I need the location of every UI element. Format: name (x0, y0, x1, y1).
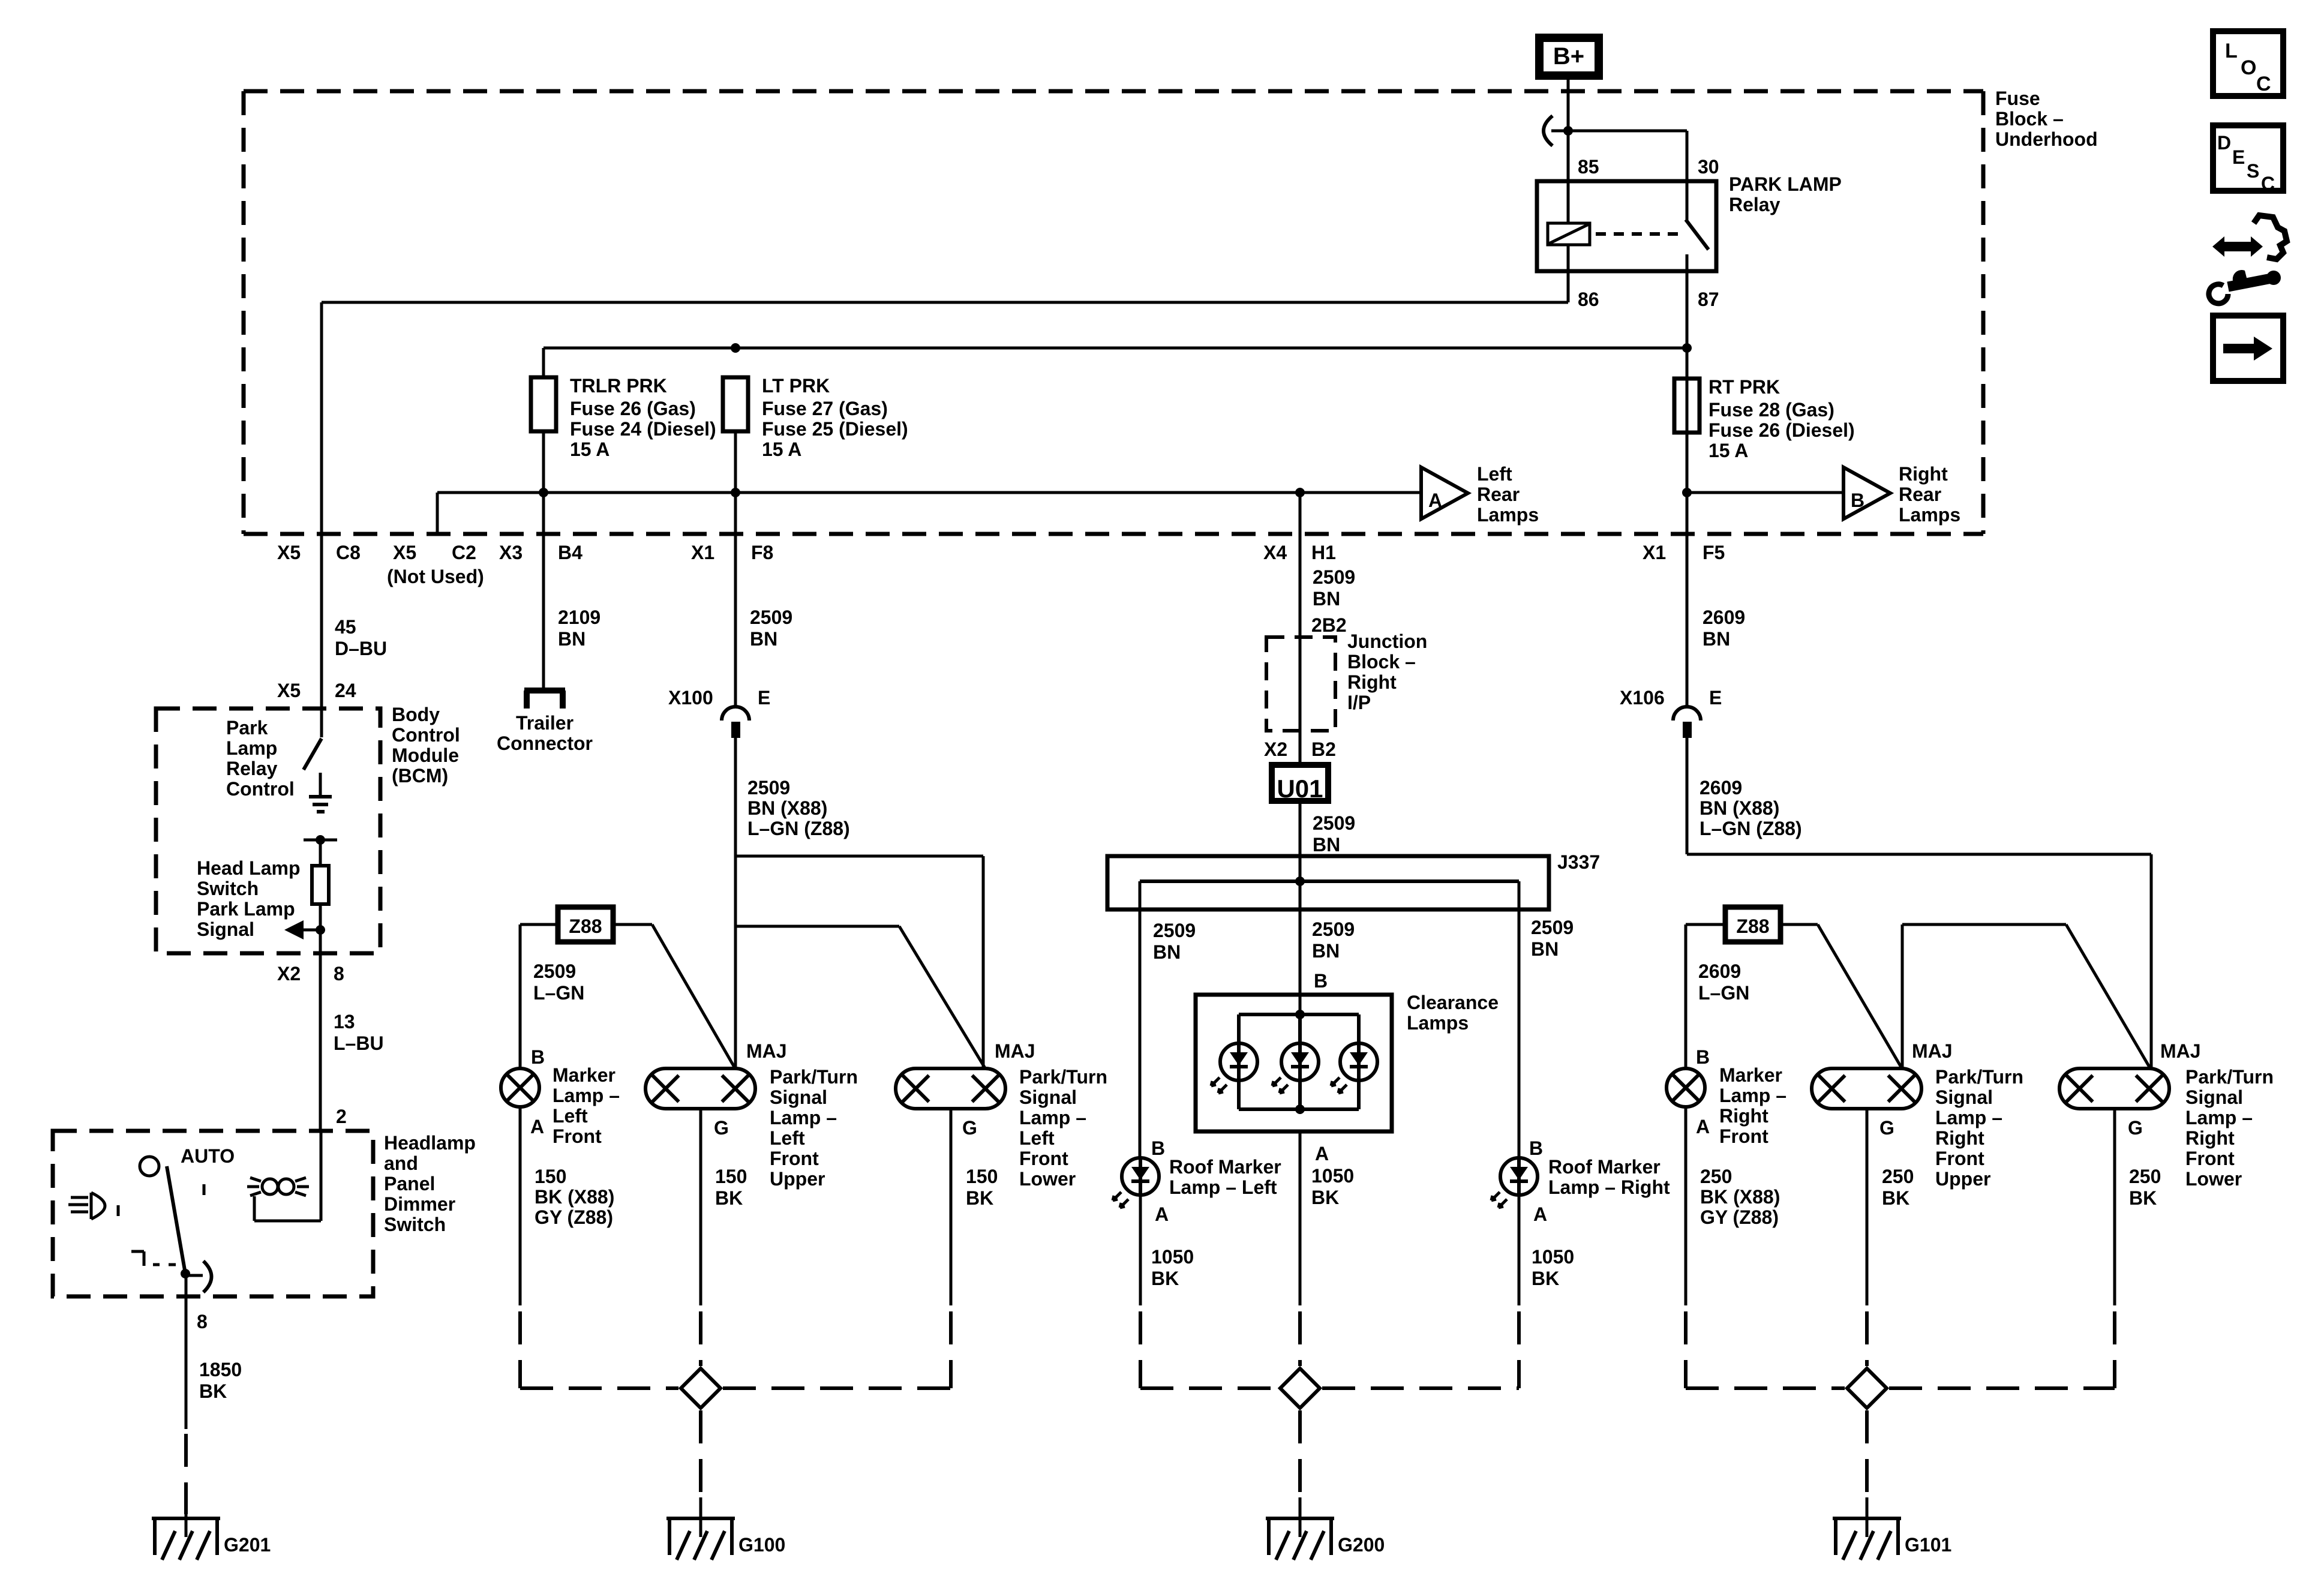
svg-text:Lamp – Left: Lamp – Left (1169, 1176, 1277, 1198)
svg-text:Block –: Block – (1347, 651, 1416, 673)
svg-text:G101: G101 (1905, 1534, 1951, 1556)
svg-text:BK: BK (1882, 1187, 1909, 1209)
svg-text:Relay: Relay (226, 758, 278, 779)
resistor: head lamp switch park lamp signal (319, 840, 322, 866)
svg-text:Signal: Signal (2185, 1086, 2243, 1108)
relay actuation dashed link (1596, 232, 1680, 236)
svg-text:8: 8 (197, 1311, 208, 1332)
svg-text:13: 13 (334, 1011, 355, 1032)
signal arrow (284, 920, 304, 939)
svg-text:Lower: Lower (2185, 1168, 2242, 1190)
dashed drop lower G right (2113, 1311, 2116, 1388)
dashed drop marker right (1684, 1311, 1688, 1388)
clearance LED 1 (1220, 1043, 1257, 1080)
svg-text:Roof Marker: Roof Marker (1548, 1156, 1661, 1178)
svg-text:O: O (2241, 56, 2256, 79)
svg-text:Left: Left (1019, 1127, 1055, 1149)
dashed drop upper G left (699, 1311, 702, 1366)
marker left output (519, 1107, 522, 1305)
icon box forward arrow (2213, 316, 2283, 381)
J337 left leg to roof marker left (1139, 881, 1142, 1158)
svg-text:Rear: Rear (1899, 484, 1941, 505)
node: B+ junction (1563, 126, 1573, 136)
switch blade (167, 1166, 185, 1274)
G200 dashed bus right (1322, 1386, 1519, 1390)
svg-text:A: A (1533, 1203, 1547, 1225)
svg-text:G: G (2128, 1117, 2143, 1139)
svg-text:L: L (2225, 40, 2238, 62)
svg-text:TRLR PRK: TRLR PRK (570, 375, 667, 397)
marker lamp left drop (519, 924, 522, 1068)
svg-text:Upper: Upper (1935, 1168, 1990, 1190)
svg-text:BK: BK (715, 1187, 743, 1209)
svg-text:BK: BK (1311, 1187, 1339, 1208)
svg-text:Marker: Marker (1719, 1064, 1782, 1086)
svg-text:BN (X88): BN (X88) (747, 797, 827, 819)
svg-text:Front: Front (770, 1148, 819, 1169)
svg-text:C8: C8 (336, 542, 361, 563)
svg-text:BK: BK (199, 1380, 227, 1402)
svg-text:BN: BN (558, 628, 585, 650)
svg-text:Z88: Z88 (569, 915, 602, 937)
off-page arrow A (1421, 467, 1468, 519)
node: head lamp switch top junction with tick (304, 839, 337, 842)
upper MAJ vertical (right) (1901, 924, 1904, 1069)
svg-text:Right: Right (1719, 1105, 1768, 1127)
svg-text:E: E (2232, 146, 2245, 168)
svg-text:15 A: 15 A (570, 439, 609, 460)
svg-text:Lamp –: Lamp – (2185, 1107, 2253, 1128)
wire F8 down (734, 534, 737, 707)
G200 dashed bus left (1140, 1386, 1278, 1390)
svg-text:S: S (2247, 160, 2259, 182)
headlamp and panel dimmer switch dashed box (53, 1131, 373, 1296)
svg-text:LT PRK: LT PRK (762, 375, 830, 397)
svg-text:Dimmer: Dimmer (384, 1193, 455, 1215)
node: TRLR bottom junction (539, 488, 548, 497)
node: blade output (181, 1269, 190, 1278)
svg-text:Right: Right (1899, 463, 1948, 485)
svg-text:B+: B+ (1553, 43, 1584, 70)
clearance output wire (1299, 1131, 1302, 1305)
svg-text:E: E (758, 687, 770, 709)
svg-text:(BCM): (BCM) (392, 765, 448, 786)
node: signal junction (316, 925, 325, 935)
branch to lower diagonal (right) (1902, 923, 2066, 926)
svg-text:Lamp –: Lamp – (770, 1107, 837, 1128)
svg-text:30: 30 (1698, 156, 1719, 178)
svg-text:L–BU: L–BU (334, 1032, 384, 1054)
off-page arrow B (1843, 467, 1890, 519)
svg-text:A: A (1428, 490, 1442, 511)
dashed drop roof marker left (1139, 1311, 1142, 1388)
svg-text:GY (Z88): GY (Z88) (1700, 1206, 1779, 1228)
svg-text:GY (Z88): GY (Z88) (535, 1206, 613, 1228)
splice diamond G100 (681, 1368, 720, 1408)
svg-text:E: E (1709, 687, 1722, 709)
BCM relay-control switch blade (304, 739, 322, 770)
fuse LT PRK (723, 377, 748, 431)
icon box LOC (2213, 31, 2283, 96)
svg-text:1850: 1850 (199, 1359, 242, 1380)
Z88 row wire (right) (1686, 923, 1725, 926)
svg-text:Right: Right (2185, 1127, 2235, 1149)
power feed B+ (1539, 38, 1599, 76)
wire through junction block (1299, 637, 1302, 731)
svg-text:D: D (2217, 132, 2231, 154)
svg-text:Right: Right (1935, 1127, 1984, 1149)
svg-text:Signal: Signal (197, 918, 254, 940)
svg-text:AUTO: AUTO (181, 1145, 235, 1167)
svg-text:G: G (1879, 1117, 1894, 1139)
svg-text:X2: X2 (1264, 739, 1287, 760)
svg-text:U01: U01 (1277, 775, 1323, 803)
svg-text:BN: BN (1703, 628, 1730, 650)
svg-text:Control: Control (226, 778, 295, 800)
dashed drop upper G right (1865, 1311, 1869, 1366)
fixed contact bracket (131, 1250, 144, 1253)
dashed wire diamond to G200 (1298, 1410, 1302, 1497)
J337 internal bus (1140, 879, 1519, 883)
svg-text:Block –: Block – (1995, 108, 2064, 130)
dashed drop roof marker right (1517, 1311, 1521, 1388)
svg-text:Switch: Switch (384, 1214, 446, 1235)
diagonal to upper MAJ (right) (1818, 924, 1902, 1069)
clearance lamps box (1196, 995, 1392, 1131)
svg-text:Trailer: Trailer (516, 712, 574, 734)
svg-text:Signal: Signal (1935, 1086, 1993, 1108)
svg-text:L–GN (Z88): L–GN (Z88) (1700, 818, 1802, 839)
svg-text:BN: BN (1313, 834, 1340, 855)
svg-text:2509: 2509 (1312, 918, 1355, 940)
wire: relay pin 86 to BCM (long horizontal) (1567, 271, 1570, 302)
svg-text:Front: Front (1719, 1125, 1768, 1147)
wire TRLR fuse bottom (542, 431, 545, 534)
svg-text:G100: G100 (738, 1534, 785, 1556)
svg-text:X106: X106 (1620, 687, 1665, 709)
svg-text:A: A (1696, 1116, 1710, 1137)
svg-text:Fuse 27 (Gas): Fuse 27 (Gas) (762, 398, 888, 419)
node: J337 center junction (1295, 876, 1305, 886)
svg-text:Lamp: Lamp (226, 737, 277, 759)
svg-text:250: 250 (2129, 1166, 2161, 1187)
svg-text:87: 87 (1698, 289, 1719, 310)
splice diamond G101 (1847, 1368, 1887, 1408)
svg-text:Left: Left (553, 1105, 588, 1127)
svg-text:G: G (962, 1117, 977, 1139)
node: RT bottom junction (1682, 488, 1692, 497)
svg-text:1050: 1050 (1151, 1246, 1194, 1268)
svg-text:2B2: 2B2 (1311, 614, 1347, 636)
svg-text:(Not Used): (Not Used) (387, 566, 484, 587)
svg-text:MAJ: MAJ (1912, 1040, 1953, 1062)
lamp: Park/Turn Signal Lamp - Left Front Upper (645, 1068, 755, 1109)
svg-text:2509: 2509 (1153, 920, 1196, 941)
relay K: PARK LAMP Relay box (1537, 181, 1716, 271)
svg-text:Front: Front (2185, 1148, 2235, 1169)
svg-text:Body: Body (392, 704, 440, 725)
svg-text:X5: X5 (393, 542, 416, 563)
svg-text:A: A (530, 1116, 544, 1137)
headlamp icon (90, 1193, 93, 1219)
clearance LED 3 (1340, 1043, 1377, 1080)
svg-text:Lamp –: Lamp – (553, 1085, 620, 1106)
svg-text:1050: 1050 (1311, 1165, 1354, 1187)
svg-text:8: 8 (334, 963, 344, 984)
svg-text:2609: 2609 (1703, 607, 1745, 628)
fusible element arc symbol (1544, 116, 1553, 146)
svg-text:Marker: Marker (553, 1064, 615, 1086)
svg-text:Control: Control (392, 724, 460, 746)
J337 right leg to roof marker right (1518, 881, 1521, 1158)
svg-text:150: 150 (966, 1166, 998, 1187)
svg-text:2509: 2509 (1531, 917, 1574, 938)
svg-text:2609: 2609 (1698, 960, 1741, 982)
svg-text:45: 45 (335, 616, 356, 638)
wire pin2 into dimmer lamps (320, 1131, 323, 1221)
in-line connector Z88 (left) (558, 907, 613, 942)
wire B+ down to relay (1567, 80, 1570, 181)
icon box DESC (2213, 125, 2283, 191)
svg-text:2609: 2609 (1700, 777, 1742, 798)
svg-text:H1: H1 (1311, 542, 1336, 563)
svg-text:Lamp –: Lamp – (1719, 1085, 1786, 1106)
splice pack J337 outer box (1107, 856, 1549, 909)
svg-text:Signal: Signal (1019, 1086, 1077, 1108)
svg-text:B: B (1851, 490, 1864, 511)
svg-text:Lamp – Right: Lamp – Right (1548, 1176, 1670, 1198)
marker lamp right drop (1685, 924, 1688, 1068)
svg-text:Lamps: Lamps (1899, 504, 1960, 526)
svg-text:Fuse 24 (Diesel): Fuse 24 (Diesel) (570, 418, 716, 440)
terminal arc (203, 1261, 212, 1292)
in-line connector Z88 (right) (1725, 907, 1780, 942)
ground G201 (152, 1518, 220, 1560)
G100 dashed bus right (723, 1386, 951, 1390)
dashed drop marker left to G100 bus (518, 1311, 522, 1388)
svg-text:Park/Turn: Park/Turn (1019, 1066, 1107, 1088)
svg-text:X5: X5 (277, 680, 301, 701)
svg-text:A: A (1315, 1143, 1329, 1164)
svg-text:BK: BK (1532, 1268, 1559, 1289)
svg-text:Lamp –: Lamp – (1019, 1107, 1086, 1128)
svg-text:Lower: Lower (1019, 1168, 1076, 1190)
wire to U01 (1299, 731, 1302, 765)
BCM dashed box (156, 709, 380, 953)
diagonal to upper MAJ (left) (652, 924, 735, 1069)
svg-text:Connector: Connector (497, 733, 593, 754)
dashed drop clearance output (1298, 1311, 1302, 1366)
wire to trailer connector (542, 534, 545, 688)
svg-text:Z88: Z88 (1736, 915, 1769, 937)
svg-text:J337: J337 (1557, 851, 1600, 873)
svg-text:Head Lamp: Head Lamp (197, 857, 300, 879)
svg-text:Front: Front (553, 1125, 602, 1147)
svg-text:RT PRK: RT PRK (1709, 376, 1780, 398)
node: LT bottom junction (731, 488, 740, 497)
icon wrench / diagnostic (2209, 215, 2287, 304)
wire B+ junction to relay pin 30 (1568, 130, 1687, 133)
svg-text:C: C (2256, 73, 2271, 95)
svg-text:Lamps: Lamps (1407, 1012, 1469, 1034)
lamp: Park/Turn Signal Lamp - Right Front Upper (1812, 1068, 1921, 1109)
ground bars inside BCM (309, 795, 332, 798)
svg-text:L–GN: L–GN (1698, 982, 1749, 1004)
ground G101 (1833, 1517, 1901, 1520)
svg-text:Signal: Signal (770, 1086, 827, 1108)
svg-text:Junction: Junction (1347, 631, 1427, 652)
svg-text:Park/Turn: Park/Turn (2185, 1066, 2274, 1088)
wire to right rear lamps (1687, 491, 1843, 494)
svg-text:MAJ: MAJ (2160, 1040, 2201, 1062)
svg-text:X4: X4 (1263, 542, 1287, 563)
svg-text:Relay: Relay (1729, 194, 1780, 215)
svg-text:MAJ: MAJ (746, 1040, 787, 1062)
J337 center drop to clearance lamps (1299, 881, 1302, 1014)
dashed drop lower G left (949, 1311, 953, 1388)
svg-text:Right: Right (1347, 671, 1397, 693)
svg-text:BK: BK (1151, 1268, 1179, 1289)
svg-text:and: and (384, 1152, 418, 1174)
wire U01 to J337 (1299, 801, 1302, 881)
svg-text:F8: F8 (751, 542, 773, 563)
svg-text:PARK LAMP: PARK LAMP (1729, 173, 1842, 195)
svg-text:BN: BN (1531, 938, 1559, 960)
fuse TRLR PRK (531, 377, 556, 431)
ground G100 (666, 1517, 735, 1520)
svg-text:BK (X88): BK (X88) (535, 1186, 614, 1208)
svg-text:B: B (531, 1046, 545, 1068)
svg-text:Fuse: Fuse (1995, 88, 2040, 109)
svg-text:Underhood: Underhood (1995, 128, 2098, 150)
svg-text:BK: BK (966, 1187, 993, 1209)
svg-text:C: C (2261, 173, 2275, 194)
X106 feed across to lower right lamp (1687, 853, 2151, 856)
svg-text:Park/Turn: Park/Turn (1935, 1066, 2023, 1088)
svg-text:Fuse 28 (Gas): Fuse 28 (Gas) (1709, 399, 1834, 421)
svg-text:X1: X1 (1643, 542, 1666, 563)
marker right output (1685, 1107, 1688, 1305)
wire LT fuse bottom (734, 431, 737, 534)
svg-text:G: G (714, 1117, 729, 1139)
svg-text:15 A: 15 A (1709, 440, 1748, 461)
svg-text:2: 2 (336, 1106, 347, 1127)
node: LT PRK top junction (731, 343, 740, 353)
svg-text:BK: BK (2129, 1187, 2157, 1209)
lamp: Marker Lamp - Right Front (1667, 1068, 1705, 1107)
svg-text:85: 85 (1578, 156, 1599, 178)
svg-text:15 A: 15 A (762, 439, 801, 460)
svg-text:Front: Front (1935, 1148, 1984, 1169)
svg-text:X1: X1 (691, 542, 714, 563)
svg-text:BK (X88): BK (X88) (1700, 1186, 1780, 1208)
svg-text:B: B (1529, 1137, 1543, 1159)
relay coil (1548, 223, 1590, 245)
svg-text:150: 150 (535, 1166, 566, 1187)
svg-text:2509: 2509 (1313, 812, 1355, 834)
svg-text:Fuse 26 (Diesel): Fuse 26 (Diesel) (1709, 419, 1855, 441)
svg-text:150: 150 (715, 1166, 747, 1187)
svg-text:Park Lamp: Park Lamp (197, 898, 295, 920)
lamp: Park/Turn Signal Lamp - Left Front Lower (896, 1068, 1005, 1109)
svg-text:Fuse 25 (Diesel): Fuse 25 (Diesel) (762, 418, 908, 440)
svg-text:MAJ: MAJ (995, 1040, 1035, 1062)
svg-text:BN: BN (1313, 588, 1340, 610)
svg-text:24: 24 (335, 680, 356, 701)
svg-text:2509: 2509 (747, 777, 790, 798)
wire: fuse top feed line (544, 347, 1687, 350)
OFF tick (203, 1184, 206, 1195)
svg-text:BN: BN (1312, 940, 1340, 962)
svg-text:Front: Front (1019, 1148, 1068, 1169)
svg-text:B: B (1696, 1046, 1710, 1068)
node: X4 branch junction (1295, 488, 1305, 497)
svg-text:Lamps: Lamps (1477, 504, 1539, 526)
branch to lower park/turn lamp (735, 855, 983, 858)
wire to G201 (185, 1274, 188, 1296)
svg-text:Park/Turn: Park/Turn (770, 1066, 858, 1088)
svg-text:2109: 2109 (558, 607, 600, 628)
wire X4 drop (1299, 493, 1302, 534)
Z88 row wire (left) (520, 923, 558, 926)
AUTO position circle (140, 1157, 159, 1176)
wire: relay pin 87 down through RT PRK fuse (1686, 271, 1689, 534)
svg-text:B: B (1151, 1137, 1165, 1159)
lamp: Marker Lamp - Left Front (501, 1068, 539, 1107)
junction block right I/P dashed box (1266, 637, 1335, 731)
splice diamond G200 (1280, 1368, 1320, 1408)
dashed wire diamond to G100 (699, 1410, 702, 1497)
svg-text:D–BU: D–BU (335, 638, 387, 659)
svg-text:2509: 2509 (533, 960, 576, 982)
svg-text:X100: X100 (668, 687, 713, 709)
svg-text:Fuse 26 (Gas): Fuse 26 (Gas) (570, 398, 696, 419)
svg-text:Clearance: Clearance (1407, 992, 1499, 1013)
svg-text:250: 250 (1700, 1166, 1732, 1187)
svg-text:2509: 2509 (750, 607, 792, 628)
svg-text:BN (X88): BN (X88) (1700, 797, 1779, 819)
clearance LED 2 (1281, 1043, 1319, 1080)
trailer connector symbol (524, 688, 565, 694)
svg-text:BN: BN (750, 628, 777, 650)
svg-text:Headlamp: Headlamp (384, 1132, 476, 1154)
svg-text:L–GN: L–GN (533, 982, 584, 1004)
svg-text:Module: Module (392, 745, 459, 766)
svg-text:B4: B4 (558, 542, 582, 563)
fuse block underhood dashed boundary box (244, 89, 1983, 94)
panel lamps icon (262, 1179, 278, 1194)
svg-text:B: B (1314, 970, 1328, 992)
G101 dashed bus left (1686, 1386, 1845, 1390)
svg-text:Lamp –: Lamp – (1935, 1107, 2002, 1128)
svg-text:X5: X5 (277, 542, 301, 563)
svg-text:C2: C2 (452, 542, 476, 563)
svg-text:Left: Left (1477, 463, 1512, 485)
G101 dashed bus right (1889, 1386, 2115, 1390)
ground G200 (1266, 1517, 1334, 1520)
wire: fuse outputs bus to left rear lamps (437, 491, 1421, 494)
svg-text:X3: X3 (499, 542, 523, 563)
svg-text:86: 86 (1578, 289, 1599, 310)
svg-text:Switch: Switch (197, 878, 259, 899)
svg-text:2509: 2509 (1313, 566, 1355, 588)
svg-text:A: A (1155, 1203, 1169, 1225)
svg-text:Rear: Rear (1477, 484, 1520, 505)
svg-text:Panel: Panel (384, 1173, 435, 1194)
svg-text:X2: X2 (277, 963, 301, 984)
G100 dashed bus left (520, 1386, 678, 1390)
svg-text:BN: BN (1153, 941, 1181, 963)
